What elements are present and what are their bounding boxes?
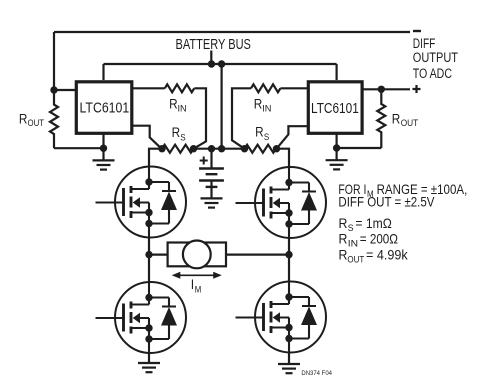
svg-text:LTC6101: LTC6101 xyxy=(311,100,359,117)
wire: RS2 right to Q2 drain xyxy=(277,149,290,167)
svg-text:OUTPUT: OUTPUT xyxy=(413,50,458,65)
svg-text:IN: IN xyxy=(178,103,187,114)
node: battery tap xyxy=(208,145,215,152)
svg-text:TO ADC: TO ADC xyxy=(413,66,452,81)
current arrow IM (double-headed) xyxy=(172,272,222,279)
svg-text:DIFF OUT = ±2.5V: DIFF OUT = ±2.5V xyxy=(338,195,435,210)
op-amp U1 LTC6101 (left) xyxy=(76,82,132,134)
wire: node A to motor xyxy=(149,254,168,256)
svg-text:M: M xyxy=(195,285,202,296)
svg-text:R: R xyxy=(19,111,28,126)
wire: ROUT1 bottom to U1 ground pin xyxy=(54,147,104,149)
wire: U2 -IN pin to RS2 right node xyxy=(277,126,310,149)
transistor Q4 (lower right MOSFET) xyxy=(236,282,327,353)
wire: Q1 drain L-wire to RS1 left node xyxy=(149,149,162,167)
svg-text:= 4.99k: = 4.99k xyxy=(366,248,408,263)
node: RS1 left xyxy=(158,145,165,152)
svg-text:OUT: OUT xyxy=(347,255,364,266)
wire: bus drop to sense rail xyxy=(221,64,223,149)
node: RS1 right xyxy=(190,145,197,152)
node B: right bridge output xyxy=(285,251,292,258)
wire: Q2 source to bridge node B xyxy=(288,238,290,255)
svg-text:R: R xyxy=(339,248,348,263)
node: U1 ground pin junction xyxy=(100,145,107,152)
node: battery bus junction left xyxy=(208,60,215,67)
svg-text:DIFF: DIFF xyxy=(413,36,436,51)
wire: RIN1 right corner down and diagonal to RS1 right node xyxy=(194,88,207,148)
wire: U2 output to ROUT2 node and plus terminal xyxy=(362,88,410,90)
op-amp U2 LTC6101 (right) xyxy=(308,82,362,134)
wire: Q1 source to bridge node A xyxy=(148,237,150,255)
battery plus marker xyxy=(200,157,208,165)
wire: U1 bottom pin stub xyxy=(102,134,104,149)
svg-text:R: R xyxy=(339,232,348,247)
svg-text:S: S xyxy=(264,132,269,143)
svg-text:= 200Ω: = 200Ω xyxy=(360,232,398,247)
minus terminal dash xyxy=(413,30,421,32)
wire: U1 ground stub xyxy=(102,148,104,160)
svg-text:BATTERY BUS: BATTERY BUS xyxy=(176,37,251,53)
wire: ROUT2 bottom to U2 ground pin xyxy=(337,147,382,149)
svg-text:IN: IN xyxy=(262,103,271,114)
svg-text:S: S xyxy=(180,132,185,143)
ground: U2 xyxy=(326,160,348,169)
svg-text:OUT: OUT xyxy=(401,118,419,129)
plus terminal xyxy=(413,85,421,93)
wire: node to U1 output pin (left edge) xyxy=(54,89,76,91)
svg-text:R: R xyxy=(392,111,401,126)
node: ROUT1 top junction xyxy=(50,86,57,93)
svg-text:R: R xyxy=(255,125,264,140)
battery BT1 plates xyxy=(199,167,224,169)
node: U2 ground pin junction xyxy=(333,144,340,151)
ground: Q4 source xyxy=(278,364,300,373)
transistor Q2 (upper right MOSFET) xyxy=(236,167,327,238)
resistor RIN1 (200 ohm, horizontal) xyxy=(165,84,194,92)
svg-text:OUT: OUT xyxy=(28,118,45,129)
resistor RS2 (1 milliohm shunt, horizontal) xyxy=(245,145,276,153)
svg-text:DN374 F04: DN374 F04 xyxy=(301,370,332,377)
wire: U1 +IN pin to RIN1 xyxy=(131,87,165,89)
wire: U2 bottom pin stub xyxy=(336,134,338,149)
resistor RIN2 (200 ohm, horizontal) xyxy=(251,84,280,92)
wire: battery bus rail xyxy=(104,63,337,65)
wire: RIN2 left corner down and diagonal to RS2 left node xyxy=(232,88,251,148)
svg-text:R: R xyxy=(172,125,181,140)
wire: U1 -IN pin to RS1 left node xyxy=(131,126,162,149)
svg-text:R: R xyxy=(339,216,348,231)
ground: battery xyxy=(201,198,223,207)
svg-text:IN: IN xyxy=(348,239,358,250)
node: battery bus junction right xyxy=(218,60,225,67)
wire: BATTERY BUS label leader xyxy=(210,51,212,65)
svg-text:LTC6101: LTC6101 xyxy=(80,100,130,117)
ground: U1 xyxy=(93,160,115,169)
wire: Q3 drain from bridge node A xyxy=(148,255,150,283)
node: RS2 left xyxy=(241,145,248,152)
wire: U1 V+ pin up to battery bus xyxy=(102,64,104,80)
wire: Q4 drain from bridge node B xyxy=(288,255,290,282)
wire: Q3 source to ground xyxy=(148,353,150,363)
wire: motor to node B xyxy=(226,254,289,256)
node A: left bridge output xyxy=(145,251,152,258)
node: RS2 right xyxy=(273,145,280,152)
wire: top bus from left drop to minus terminal xyxy=(54,31,410,33)
resistor RS1 (1 milliohm shunt, horizontal) xyxy=(162,145,193,153)
wire: battery to ground xyxy=(210,187,212,198)
node: bus drop tap xyxy=(218,145,225,152)
battery BT1 stub from sense rail xyxy=(210,149,212,169)
ground: Q3 source xyxy=(138,363,160,372)
wire: U2 V+ pin up to battery bus xyxy=(336,64,338,80)
wire: left vertical drop from top bus to ROUT1 node xyxy=(53,32,55,90)
transistor Q3 (lower left MOSFET) xyxy=(96,282,187,353)
transistor Q1 (upper left MOSFET) xyxy=(96,167,187,238)
svg-text:S: S xyxy=(348,223,354,234)
wire: U2 ground stub xyxy=(336,148,338,160)
resistor ROUT1 (4.99k, vertical) xyxy=(50,90,58,148)
motor M1 (load) xyxy=(168,243,226,267)
wire: sense rail center segment xyxy=(194,148,245,150)
wire: Q4 source to ground xyxy=(288,353,290,364)
resistor ROUT2 (4.99k, vertical) xyxy=(377,89,385,148)
svg-text:I: I xyxy=(191,277,194,292)
wire: RIN2 to U2 +IN pin xyxy=(280,87,309,89)
svg-text:= 1mΩ: = 1mΩ xyxy=(355,216,391,231)
node: ROUT2 top junction xyxy=(378,86,385,93)
